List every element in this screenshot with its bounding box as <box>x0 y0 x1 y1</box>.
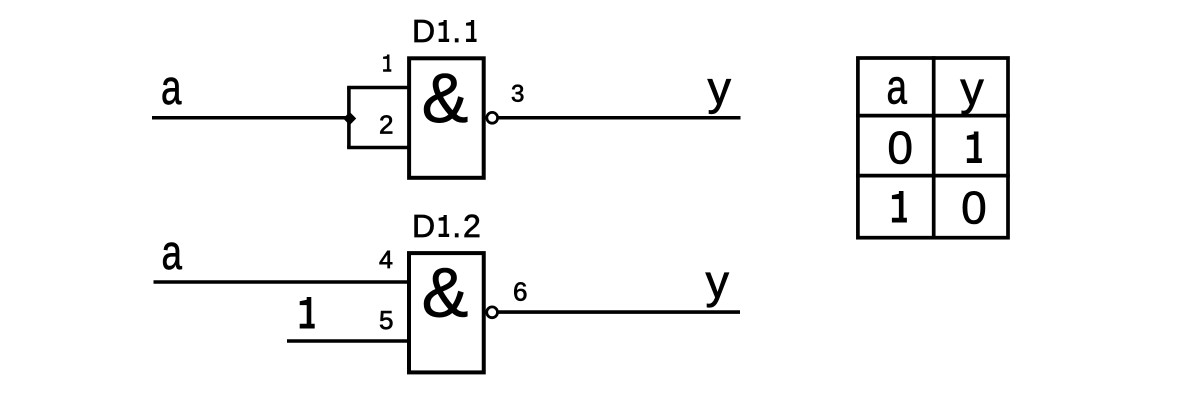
svg-text:.: . <box>452 13 461 49</box>
svg-text:D: D <box>412 208 435 244</box>
svg-text:0: 0 <box>887 122 913 174</box>
svg-text:2: 2 <box>463 208 481 244</box>
svg-text:a: a <box>162 226 183 280</box>
svg-text:0: 0 <box>961 182 987 234</box>
svg-text:a: a <box>887 61 908 115</box>
svg-text:a: a <box>161 61 182 115</box>
svg-text:y: y <box>706 255 730 308</box>
svg-text:2: 2 <box>379 110 393 140</box>
svg-text:y: y <box>960 61 984 114</box>
svg-text:.: . <box>452 208 461 244</box>
svg-text:6: 6 <box>513 277 527 307</box>
svg-text:y: y <box>708 61 732 114</box>
svg-text:3: 3 <box>511 81 524 108</box>
svg-text:4: 4 <box>379 246 393 274</box>
svg-text:&: & <box>422 59 469 137</box>
svg-text:D: D <box>412 13 435 49</box>
svg-text:&: & <box>422 254 469 332</box>
svg-text:5: 5 <box>379 305 393 335</box>
